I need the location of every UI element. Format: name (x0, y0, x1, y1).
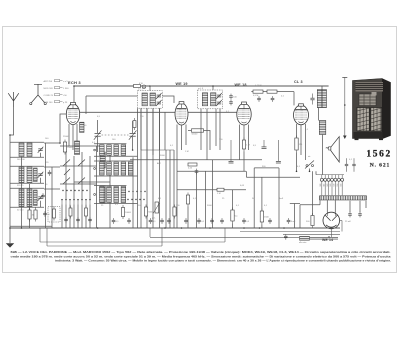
wire HT bus (74, 85, 329, 87)
resistor R7 (121, 205, 131, 219)
wire trimmer C2 drop (40, 178, 42, 184)
junction 13 (283, 227, 285, 229)
capacitor C22 (284, 234, 287, 239)
wire drop 261 (261, 177, 263, 211)
wire switch stem 4 (89, 156, 91, 199)
junction 17 (21, 227, 23, 229)
antenna symbol (8, 92, 19, 107)
coil bank row 3 coil 3 (114, 187, 119, 203)
wire bus to T1 (149, 86, 151, 91)
band switch S2 contacts (127, 191, 145, 200)
resistor R2 (34, 208, 37, 222)
wire T4 right tap 2 (359, 201, 361, 212)
svg-text:N. 621: N. 621 (370, 163, 390, 169)
resistor R29 field (306, 213, 314, 228)
junction 15 (309, 171, 311, 173)
junction 2 (9, 227, 11, 229)
capacitor C30 grid stopper (276, 140, 281, 163)
coil L7 osc (75, 141, 80, 155)
capacitor C14 (271, 96, 275, 102)
coil T2 secondary (211, 93, 216, 106)
trimmer T2 b (216, 100, 222, 106)
coil bank row 1 coil 3 (114, 145, 119, 156)
capacitor C23 (287, 218, 296, 224)
wire aerial rail (9, 135, 11, 228)
radio cabinet illustration (353, 79, 391, 141)
wire R11 right (204, 131, 211, 151)
band switch S1 wafer 1 (63, 160, 85, 185)
ground (6, 243, 14, 247)
switch contact row 2 (94, 168, 96, 170)
coil L8 osc (100, 152, 105, 168)
wire drop 177 (176, 171, 178, 228)
svg-text:150: 150 (337, 184, 339, 187)
coil bank row 2 coil 4 (121, 162, 126, 175)
wire bias step (245, 171, 247, 177)
resistor R11 (192, 129, 204, 136)
wire chassis bus (10, 227, 340, 229)
resistor R16 (186, 193, 189, 207)
wire tuner rail D (51, 167, 53, 228)
resistor R1 (28, 208, 36, 222)
wire WE19 pin 2 (181, 125, 183, 150)
capacitor C36 (64, 217, 68, 223)
wire bus to ECH3 cap (73, 86, 75, 103)
coil bank row 2 coil 3 (114, 162, 119, 175)
output transformer T3 primary (317, 90, 322, 108)
coil bank row 3 coil 1 (100, 187, 105, 203)
coil bank row 2 coil 1 (100, 162, 105, 175)
resistor R19 (231, 208, 239, 224)
pilot lamp (142, 85, 145, 88)
wire bundle drop 2 (169, 150, 171, 228)
wire ECH3 pin 1 (68, 124, 70, 146)
wire drop 205 (205, 171, 207, 228)
resistor R26 (133, 118, 136, 130)
potentiometer P1 (152, 202, 160, 220)
resistor R15 (295, 136, 303, 153)
resistor R12 (242, 138, 250, 152)
wire coil row 3 bottom (94, 203, 138, 205)
capacitor C17 (197, 218, 205, 224)
resistor R13 (253, 90, 263, 97)
svg-text:AVC: AVC (157, 162, 162, 165)
svg-text:BOB 140: BOB 140 (44, 102, 54, 104)
wire coil row 1 top (94, 143, 126, 145)
wire primary drop (319, 200, 321, 205)
coil bank row 3 coil 2 (107, 187, 112, 203)
coil L4 triode grid (80, 122, 84, 132)
wire ECH3 grid left (60, 114, 66, 143)
IF transformer T2 (198, 90, 223, 109)
wire ECH3 pin 2 (72, 125, 74, 150)
wire trimmer C3 drop (40, 201, 42, 208)
wire R23 drop (261, 225, 263, 229)
band switch S1 contacts (61, 199, 91, 205)
capacitor C20 (242, 218, 250, 224)
wire ECH3 plate to bus2 (80, 111, 237, 113)
wire return bus 3 (40, 241, 225, 243)
junction 4 (149, 85, 151, 87)
tube U3 WE18 (237, 102, 251, 125)
svg-text:ANT 250: ANT 250 (44, 80, 53, 83)
svg-text:140: 140 (334, 184, 336, 187)
wire switch drop (309, 169, 311, 172)
wire switch stem 2 (73, 156, 75, 199)
junction 11 (243, 227, 245, 229)
antenna coupling switch (30, 84, 47, 104)
wire WE18 pin 3 (248, 125, 250, 151)
svg-text:50000: 50000 (192, 134, 199, 136)
wire drop 196 (196, 171, 198, 228)
wire bus2 left leg (149, 228, 151, 237)
svg-text:0,5 M: 0,5 M (253, 95, 258, 97)
wire switch contact 4 drop (73, 205, 75, 229)
variable capacitor C6 (129, 130, 137, 139)
wire drop 165 (164, 112, 166, 150)
band switch S1 wafer 2 contacts (62, 190, 87, 191)
wire return bus 2 (150, 236, 300, 238)
wire link 203 (290, 203, 300, 205)
wire coil row 2 bottom (94, 175, 138, 177)
wire rect side (340, 220, 342, 222)
wire mixer grid (86, 95, 138, 97)
junction 6 (97, 227, 99, 229)
wire rect cathode (330, 229, 332, 238)
wire T4 right tap (349, 201, 351, 212)
coil L4 aerial (27, 167, 32, 183)
field coil L10 (319, 121, 326, 135)
svg-text:1562: 1562 (366, 149, 392, 159)
capacitor C18 (210, 218, 214, 224)
capacitor C31 (345, 158, 348, 171)
capacitor C21 (268, 218, 272, 224)
wire T4 end (365, 201, 367, 208)
svg-text:m.f. II: m.f. II (198, 88, 204, 90)
wire tuner-osc link 1 (44, 142, 60, 144)
wire return bus 1b (283, 233, 340, 235)
wire T2 pin 4 (219, 109, 221, 150)
wire switch contact 3 drop (69, 205, 71, 229)
tube U4 CL3 (294, 104, 309, 125)
coil L2 aerial (27, 143, 32, 157)
wire return bus 3 left leg (39, 228, 41, 242)
wire T1 pin 2 drop (146, 108, 148, 228)
voltage selector (320, 175, 344, 196)
wire T2 pin 3 (215, 109, 217, 146)
svg-text:120: 120 (327, 184, 329, 187)
wire drop 212 (211, 160, 213, 228)
svg-text:WE 19: WE 19 (176, 82, 188, 86)
coil L5 aerial (19, 189, 24, 207)
wire rect out (341, 221, 343, 232)
junction 8 (164, 227, 166, 229)
svg-text:1 M: 1 M (246, 145, 250, 147)
wire ground lead (9, 228, 11, 243)
capacitor C15 (167, 218, 171, 224)
wire switch contact 5 drop (77, 205, 79, 229)
wire return bus 1 (240, 231, 340, 233)
capacitor C10 (160, 218, 164, 224)
coil T1 primary (142, 93, 147, 106)
wire drop 279 (278, 168, 280, 228)
wire CL3 pin 2 (300, 125, 302, 155)
junction 7 (132, 149, 134, 151)
capacitor C16 (184, 218, 188, 224)
capacitor C11 (229, 94, 237, 100)
wire tuner rail B (29, 184, 31, 228)
wire osc rail 1 (96, 146, 98, 228)
coil L3 aerial (19, 167, 24, 183)
wire T3 sec down (318, 108, 320, 121)
svg-text:25 mF: 25 mF (345, 221, 352, 223)
wire switch row link 1 (60, 165, 97, 167)
wire R29 feed (312, 171, 314, 215)
wire R12 drop (243, 152, 245, 172)
wire T4 to rect 2 (334, 200, 336, 212)
wire C6 top (132, 121, 134, 133)
wire tuner group 3 top (10, 187, 44, 189)
svg-text:WE 14: WE 14 (322, 238, 333, 242)
wire WE19 pin 1 (176, 125, 178, 172)
wire tuner group 2 bottom (10, 182, 44, 184)
svg-text:160: 160 (340, 184, 342, 187)
resistor R3 (63, 140, 74, 155)
wire CL3 pin 1 (296, 124, 298, 138)
capacitor C7 (112, 218, 120, 224)
svg-text:m.f. I: m.f. I (138, 89, 143, 91)
svg-text:698 — LA VOCE DEL PADRONE — Mo: 698 — LA VOCE DEL PADRONE — Mod. MARCONI… (11, 250, 391, 254)
switch contact row 1 (94, 149, 96, 151)
junction 3 (73, 85, 75, 87)
capacitor C29 grid stopper (262, 140, 267, 149)
rectifier U5 WE14 (323, 212, 340, 229)
wire switch contact 2 drop (65, 205, 67, 229)
wire coil rail B (137, 108, 139, 228)
capacitor C34 (48, 170, 52, 176)
capacitor C9 (149, 218, 157, 224)
svg-text:indistorta: 3 Watt. — Consumo:: indistorta: 3 Watt. — Consumo: 55 Watt c… (55, 259, 391, 263)
wire tuner group 1 top (10, 141, 44, 143)
svg-text:pot.: pot. (152, 217, 156, 220)
wire WE18 pin 2 (243, 125, 245, 140)
wire AF line (251, 91, 294, 93)
svg-text:10000: 10000 (125, 212, 132, 214)
wire T1 pin 1 (140, 108, 142, 150)
wire bias line right (246, 176, 300, 178)
resistor R17 (217, 188, 224, 195)
wire drop 232 (232, 190, 234, 210)
svg-text:130: 130 (330, 184, 332, 187)
legend row 1 (44, 80, 69, 84)
wire tuner group 3 bottom (10, 206, 44, 208)
wire tuner bottom link (10, 225, 52, 227)
wire coil rail A (132, 157, 134, 228)
wire R11 left (188, 130, 192, 132)
wire osc link 146 (60, 145, 103, 147)
svg-text:onde medie 180 a 578 m. onde c: onde medie 180 a 578 m. onde corte accor… (11, 254, 391, 258)
wire bus to T2 (212, 86, 214, 90)
resistor R28 (188, 163, 197, 170)
svg-text:COND 25: COND 25 (44, 95, 54, 97)
svg-text:m: m (150, 86, 152, 88)
wire tuner group 2 top (10, 165, 44, 167)
coil bank row 1 coil 2 (107, 145, 112, 156)
coil bank row 2 coil 2 (107, 162, 112, 175)
resistor R5 (173, 205, 176, 219)
coil bank row 1 coil 4 (121, 145, 126, 156)
junction 1 (9, 134, 11, 136)
trimmer C3 (38, 195, 44, 201)
svg-text:100: 100 (320, 184, 322, 187)
wire return bus 4 right leg (161, 228, 163, 246)
wire switch contact 7 drop (85, 205, 87, 229)
wire switch stem 3 (81, 152, 83, 199)
svg-text:8mF: 8mF (279, 198, 284, 200)
wire AVC line (130, 159, 262, 161)
svg-text:alla rete: alla rete (299, 241, 307, 244)
wire WE19 grid link (162, 96, 174, 103)
wire coil row 3 top (94, 185, 126, 187)
padding block (48, 207, 60, 223)
legend row 2 (44, 87, 70, 91)
wire switch row link 2 (60, 183, 97, 185)
resistor R27 (53, 207, 56, 221)
wire osc rail 2 (109, 150, 111, 228)
wire T1 pin 2 (146, 108, 148, 160)
wire T1 pin 3 drop (152, 108, 154, 228)
wire switch stem 1 (65, 152, 67, 199)
wire bundle drop 3 (173, 150, 175, 228)
wire bundle drop 1 (165, 150, 167, 228)
wire WE19 pin 3 (185, 125, 187, 146)
capacitor C19 (220, 218, 224, 224)
svg-text:MOD 520: MOD 520 (44, 88, 54, 90)
wire tuner rail A (21, 157, 23, 229)
coil L1 aerial (19, 143, 24, 157)
wire coil row 1 bottom (94, 155, 138, 157)
coil bank row 2 coil 5 (128, 162, 133, 175)
wire aux line (254, 167, 279, 169)
junction 14 (296, 171, 298, 173)
wire C6 bottom (132, 137, 134, 150)
wire C5 bottom (97, 137, 99, 152)
junction 12 (259, 227, 261, 229)
mains switch (305, 161, 314, 169)
wire bias line (177, 170, 246, 172)
wire osc link 182 (74, 181, 110, 183)
wire return bus 4 left leg (46, 228, 48, 246)
svg-text:25000: 25000 (67, 147, 74, 149)
capacitor C12 (229, 100, 233, 106)
resistor R23 (260, 209, 269, 225)
junction 5 (212, 85, 214, 87)
svg-text:25000: 25000 (63, 136, 70, 138)
svg-text:1 M: 1 M (217, 193, 221, 195)
junction 9 (181, 227, 183, 229)
resistor R14 (267, 90, 277, 93)
tube U1 ECH3 (66, 102, 79, 124)
trimmer T1 a (156, 93, 162, 99)
wire primary left (299, 205, 301, 228)
wire trimmer C1 drop (40, 153, 42, 158)
wire drop 294 (293, 204, 295, 229)
legend row 4 (44, 101, 69, 105)
capacitor C13 (257, 96, 261, 102)
mains cord (300, 236, 339, 240)
wire tuner-osc link 3 (44, 188, 60, 190)
capacitor C8 (127, 218, 131, 224)
capacitor C27 (195, 169, 199, 175)
wire T1 pin 1 drop (140, 108, 142, 228)
trimmer T2 a (216, 93, 222, 99)
trimmer C2 (38, 172, 44, 178)
wire primary link (300, 204, 320, 206)
wire grid CL3 (293, 92, 295, 106)
IF transformer T1 (138, 91, 163, 109)
wire R19 drop (232, 224, 234, 229)
capacitor C26 (358, 212, 362, 218)
coil T2 primary (202, 93, 207, 106)
resistor R4 (144, 205, 153, 219)
wire field coil down (322, 135, 324, 175)
coil L12 aerial third (34, 190, 38, 206)
variable capacitor C5 (94, 130, 102, 139)
svg-text:50 140: 50 140 (17, 210, 24, 212)
trimmer C1 (38, 147, 44, 153)
coil T1 secondary (150, 93, 155, 106)
wire T2 pin 2 (206, 109, 208, 160)
svg-text:520 25: 520 25 (17, 185, 24, 187)
resistor R32 (85, 206, 88, 219)
resistor R31 (69, 206, 72, 219)
junction 16 (328, 236, 330, 238)
wire WE18 pin 1 (239, 125, 241, 161)
wire drop 254 (253, 168, 255, 228)
svg-text:1 300: 1 300 (63, 88, 69, 90)
coil L9 osc (100, 186, 105, 203)
wire tuner group 1 bottom (10, 156, 44, 158)
wire bundle link (141, 149, 174, 151)
wire return bus 3 right leg (224, 228, 226, 242)
svg-text:8 mF: 8 mF (291, 221, 296, 223)
wire tuner rail C (45, 143, 47, 228)
capacitor C4 (43, 211, 50, 217)
wire T2 pin 1 (200, 109, 202, 150)
wire T4 to rect 1 (326, 200, 328, 212)
wire R16 drop (187, 207, 189, 229)
svg-text:WE 18: WE 18 (235, 83, 247, 87)
coil bank row 3 coil 4 (121, 187, 126, 203)
wire CL3 pin 3 (305, 124, 307, 160)
wire switch contact 6 drop (81, 205, 83, 229)
svg-text:ECH 3: ECH 3 (68, 80, 81, 85)
power transformer T4 (320, 196, 367, 200)
output transformer T3 secondary (322, 90, 326, 108)
capacitor C38 (88, 217, 92, 223)
coil L6 aerial (27, 189, 32, 207)
wire coil row 2 top (94, 160, 134, 162)
wire selector feed (316, 174, 344, 176)
wire switch contact 8 drop (89, 205, 91, 229)
wire ECH3 pin 3 (76, 124, 78, 141)
wire antenna lead-in (10, 107, 14, 135)
wire T1 pin 3 (152, 108, 154, 155)
svg-text:110: 110 (323, 184, 325, 187)
wire tuner-osc link 2 (44, 166, 60, 168)
wire bus to T3 (321, 86, 323, 90)
junction 18 (59, 142, 61, 144)
